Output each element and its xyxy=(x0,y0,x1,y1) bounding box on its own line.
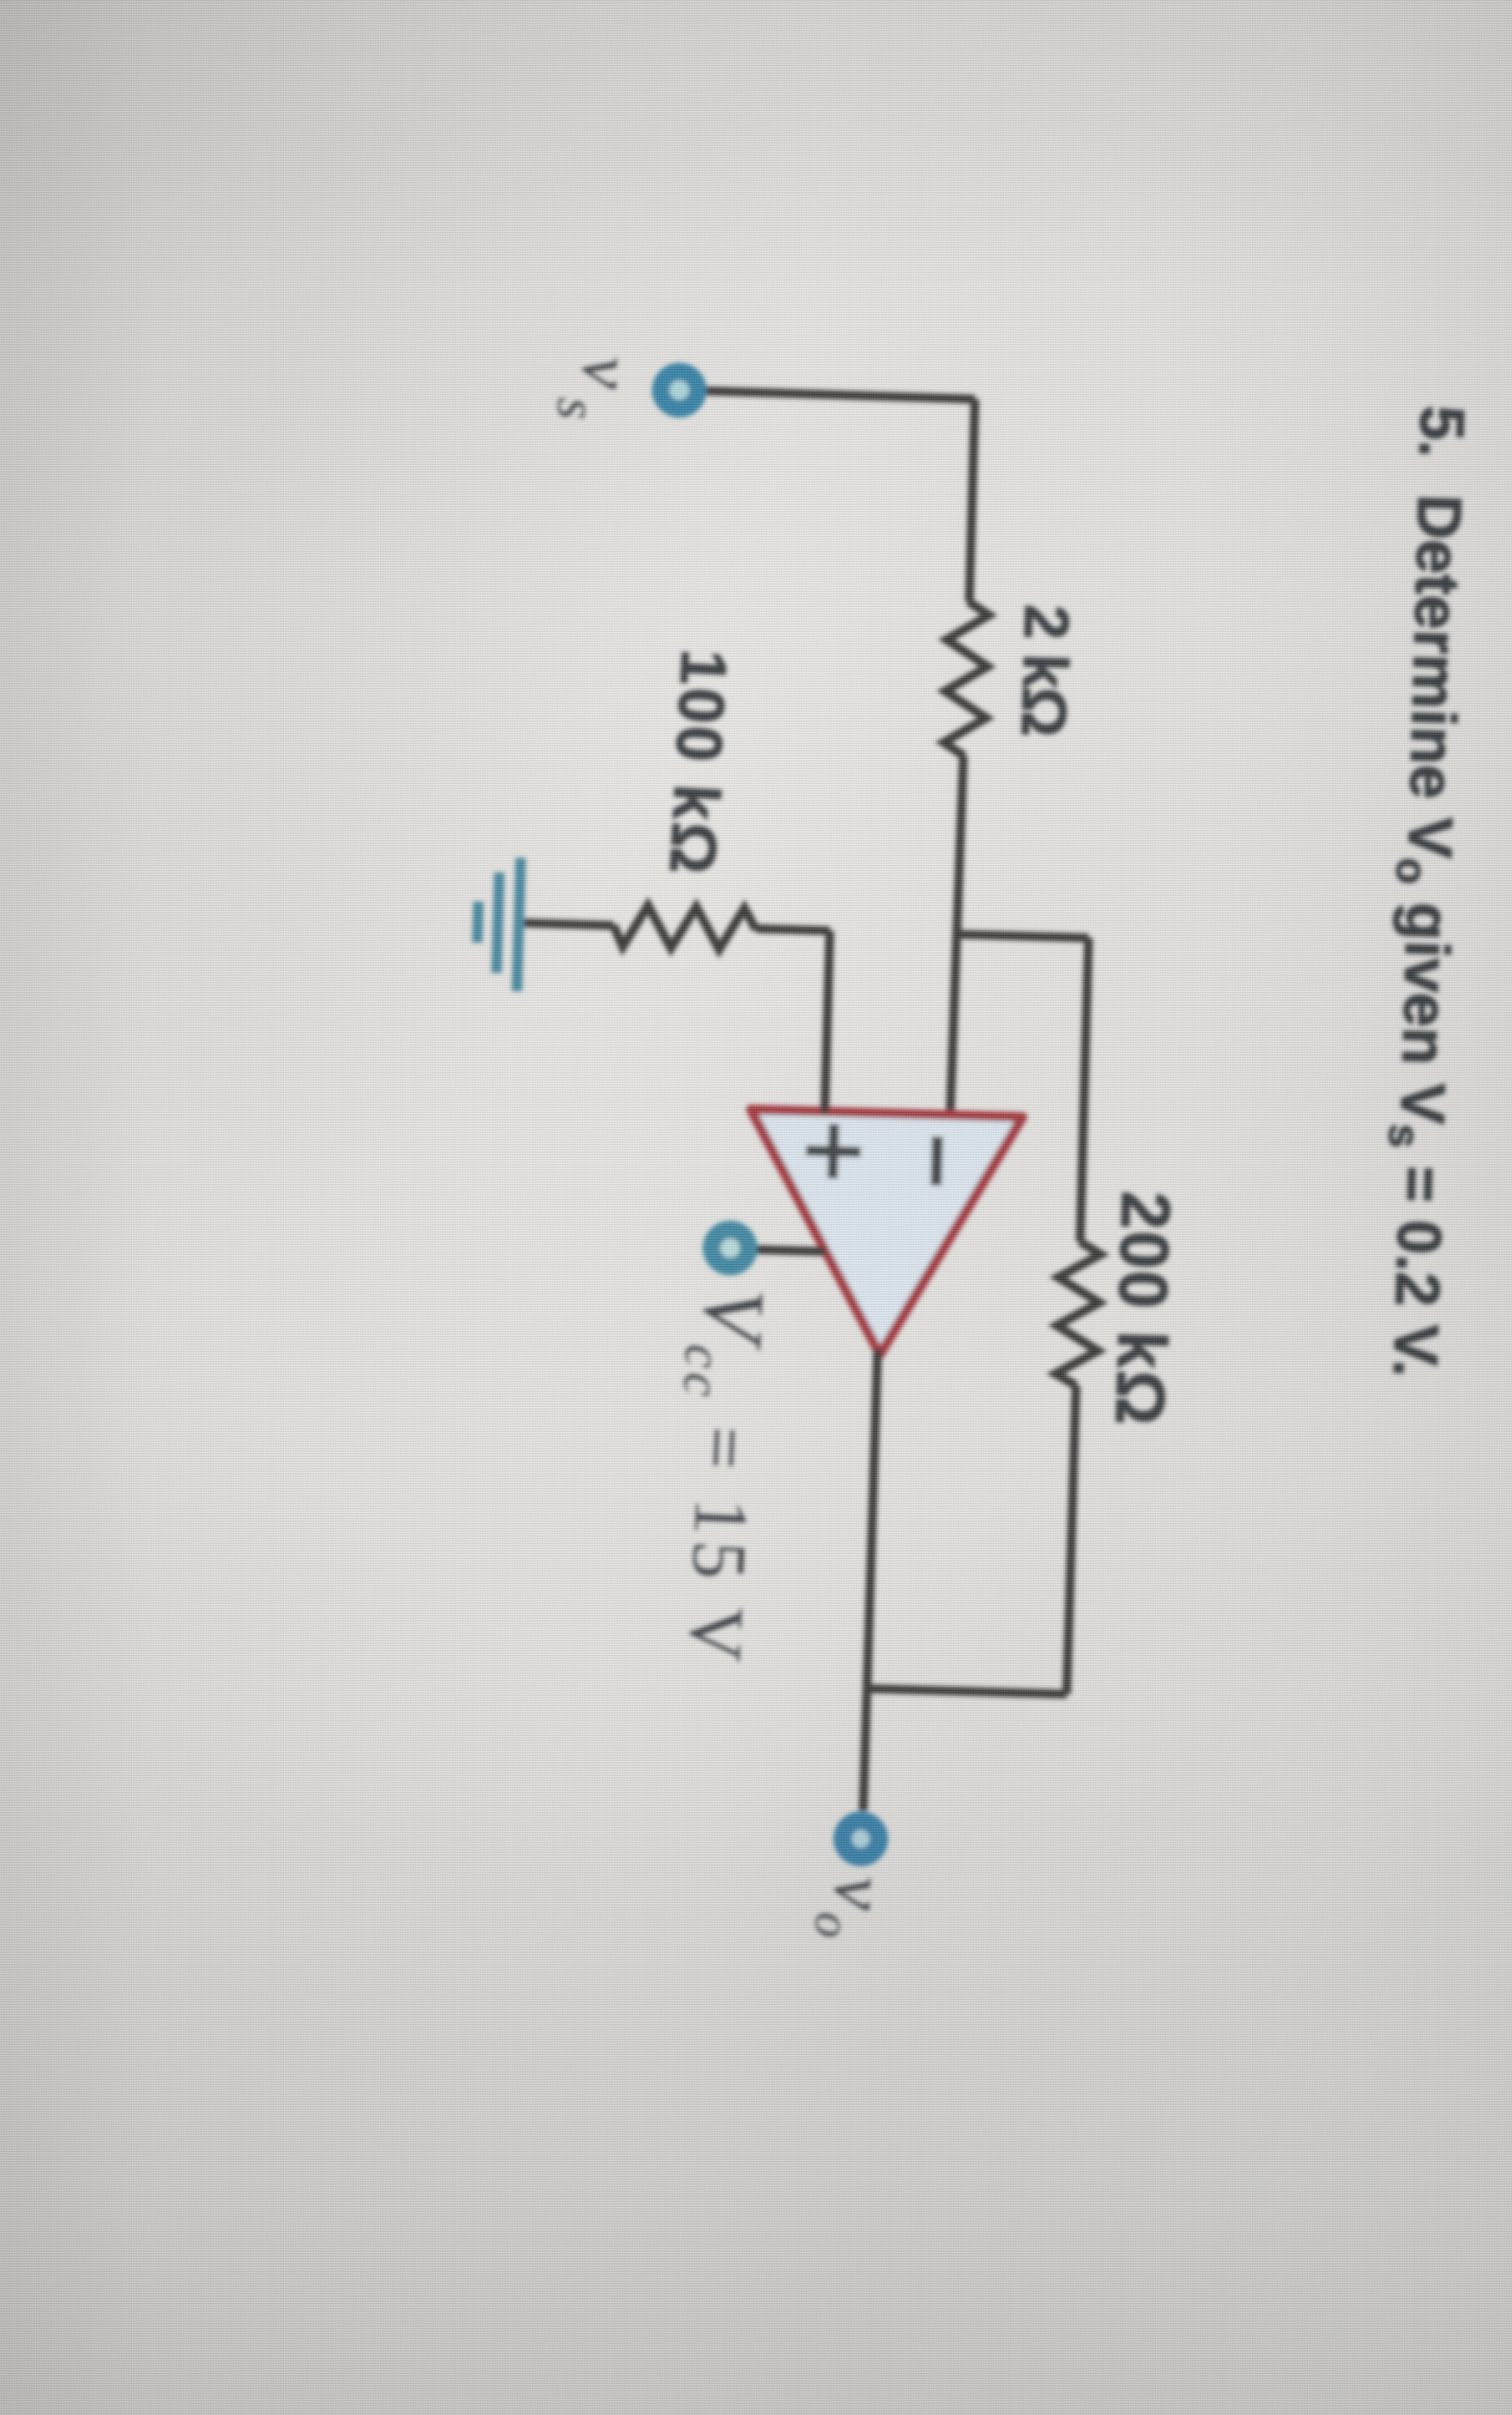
op-amp U1 triangle xyxy=(744,1109,1022,1358)
wire feedback top right xyxy=(1067,1386,1076,1695)
node vo terminal xyxy=(833,1810,889,1867)
resistor R3 100k zigzag xyxy=(613,904,756,950)
op-amp minus sign xyxy=(936,1137,938,1186)
wire plus corner down xyxy=(756,929,830,931)
node vs terminal xyxy=(651,362,707,418)
resistor R1 2k zigzag xyxy=(943,601,989,756)
svg-text:2 kΩ: 2 kΩ xyxy=(1008,604,1083,736)
wire vs up xyxy=(706,391,975,399)
wire plus input xyxy=(825,931,830,1113)
op-amp plus sign xyxy=(833,1124,834,1179)
node Vcc terminal xyxy=(702,1220,758,1277)
wire Vcc to opamp xyxy=(756,1249,826,1251)
svg-text:200 kΩ: 200 kΩ xyxy=(1100,1191,1183,1428)
svg-text:100 kΩ: 100 kΩ xyxy=(656,648,740,879)
wire feedback top left xyxy=(1080,938,1089,1242)
wire output xyxy=(863,1350,878,1811)
wire feedback drop xyxy=(868,1688,1067,1694)
resistor R2 200k zigzag xyxy=(1055,1241,1101,1386)
wire R1 to minus input xyxy=(950,756,963,1115)
wire 100k to ground xyxy=(521,923,613,925)
wire feedback riser xyxy=(957,934,1088,938)
ground xyxy=(517,858,521,991)
wire top horizontal to R1 xyxy=(969,400,975,602)
